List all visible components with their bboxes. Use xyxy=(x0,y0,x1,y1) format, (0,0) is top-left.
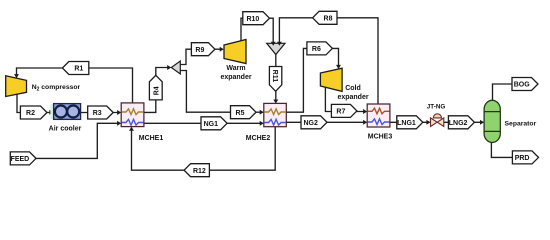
separator weld line bottom xyxy=(484,130,500,132)
wire R1 loop: MCHE1 top to N2 compressor inlet xyxy=(17,68,133,103)
svg-text:R7: R7 xyxy=(336,109,345,116)
arrow into MCHE1 hot inlet xyxy=(117,110,121,115)
air cooler fan circle left xyxy=(55,106,67,118)
arrow into air cooler (green) xyxy=(49,110,53,115)
wire MCHE1 NG outlet through NG1 to MCHE2 NG inlet xyxy=(144,122,262,124)
wire tee upper outlet through R9 to warm expander xyxy=(180,49,222,64)
cold expander xyxy=(320,68,342,91)
svg-text:LNG2: LNG2 xyxy=(449,120,468,127)
wire MCHE3 top through R8 to mixer funnel xyxy=(279,18,378,104)
svg-text:R4: R4 xyxy=(153,86,160,95)
wire separator bottom to PRD xyxy=(491,142,512,157)
svg-text:PRD: PRD xyxy=(515,155,530,162)
flag LNG2 xyxy=(448,116,474,129)
wire FEED to MCHE1 NG inlet xyxy=(30,123,120,158)
arrow into MCHE1 bottom return inlet xyxy=(129,127,134,131)
arrow into JT valve xyxy=(426,120,430,125)
arrow R10 into mixer funnel xyxy=(271,42,276,46)
wire MCHE2 NG outlet through NG2 to MCHE3 NG inlet xyxy=(286,121,365,123)
MCHE1 heat exchanger box xyxy=(121,103,144,127)
svg-text:R9: R9 xyxy=(195,47,204,54)
svg-text:R1: R1 xyxy=(74,66,83,73)
svg-text:BOG: BOG xyxy=(514,82,531,89)
svg-text:Separator: Separator xyxy=(505,120,537,127)
wire warm expander top through R10 to mixer funnel xyxy=(241,18,273,44)
svg-text:Warm: Warm xyxy=(226,65,245,72)
arrow into MCHE2 hot inlet xyxy=(260,110,264,115)
wire air cooler to R3 to MCHE1 hot inlet xyxy=(81,112,120,114)
air cooler highlight strip xyxy=(50,104,53,119)
flag LNG1 xyxy=(397,116,423,129)
svg-text:R6: R6 xyxy=(312,46,321,53)
svg-text:R10: R10 xyxy=(246,16,259,23)
flag NG2 xyxy=(301,116,327,129)
JT valve actuator dome xyxy=(433,114,441,118)
wire compressor outlet to R2 to air cooler xyxy=(17,94,50,112)
wire mixer funnel through R11 to MCHE2 top xyxy=(275,54,277,103)
flag R2 xyxy=(20,106,47,119)
flag R1 xyxy=(62,62,88,75)
flag BOG xyxy=(512,78,538,91)
MCHE2 cold zigzag xyxy=(264,119,286,125)
warm expander xyxy=(224,40,246,64)
svg-text:R11: R11 xyxy=(271,70,278,83)
MCHE3 hot zigzag xyxy=(368,108,390,114)
svg-text:FEED: FEED xyxy=(11,156,30,163)
separator weld line top xyxy=(484,111,500,113)
arrow into tee xyxy=(167,65,171,70)
flag R8 xyxy=(313,11,337,24)
arrow into MCHE1 NG inlet xyxy=(117,121,121,126)
MCHE3 heat exchanger box xyxy=(367,104,390,127)
air cooler fan circle right xyxy=(67,106,79,118)
wire tee lower outlet through R5 to MCHE2 hot inlet xyxy=(180,71,262,113)
MCHE3 cold zigzag xyxy=(368,119,390,125)
flag R5 xyxy=(231,106,257,119)
svg-text:R5: R5 xyxy=(236,110,245,117)
MCHE2 heat exchanger box xyxy=(264,103,287,126)
air cooler E1 xyxy=(54,104,81,120)
compressor K1 N2 compressor xyxy=(6,76,27,97)
separator vessel xyxy=(484,100,500,142)
wire MCHE1 hot outlet through R4 to tee xyxy=(144,68,170,113)
svg-text:NG2: NG2 xyxy=(303,120,318,127)
arrow into separator xyxy=(480,120,484,125)
svg-text:MCHE3: MCHE3 xyxy=(368,134,393,141)
arrow into warm expander xyxy=(220,47,224,52)
flag R4 xyxy=(149,75,162,100)
flag R12 xyxy=(184,164,209,177)
flag PRD xyxy=(512,151,538,164)
flag FEED xyxy=(10,152,36,165)
flag NG1 xyxy=(201,117,227,130)
svg-text:LNG1: LNG1 xyxy=(397,120,416,127)
svg-text:MCHE1: MCHE1 xyxy=(139,135,164,142)
flag R7 xyxy=(331,104,357,117)
flag R6 xyxy=(307,42,333,55)
wire separator top to BOG xyxy=(493,84,513,101)
flag R11 xyxy=(269,67,281,92)
flag R10 xyxy=(243,12,270,25)
MCHE2 hot zigzag xyxy=(264,109,286,115)
MCHE1 hot zigzag xyxy=(122,109,144,115)
svg-text:R3: R3 xyxy=(93,110,102,117)
arrow into cold expander xyxy=(336,65,341,69)
wire MCHE2 hot outlet through R6 to cold expander xyxy=(286,48,338,112)
svg-text:Air cooler: Air cooler xyxy=(49,126,82,133)
flag R3 xyxy=(88,106,114,119)
wire MCHE2 bottom through R12 to MCHE1 bottom xyxy=(132,127,276,171)
MCHE1 cold zigzag xyxy=(122,119,144,125)
arrow into MCHE3 NG inlet xyxy=(363,120,367,125)
svg-text:expander: expander xyxy=(337,94,368,101)
svg-text:R8: R8 xyxy=(324,15,333,22)
flag R9 xyxy=(191,43,215,56)
svg-text:NG1: NG1 xyxy=(204,121,219,128)
mixer funnel xyxy=(267,43,285,54)
wire cold expander outlet through R7 to MCHE3 hot inlet xyxy=(325,87,365,112)
JT valve body xyxy=(431,118,444,127)
arrow into MCHE2 top xyxy=(273,100,278,104)
svg-text:R12: R12 xyxy=(193,168,206,175)
arrow R8 into mixer funnel xyxy=(277,42,282,46)
svg-text:JT-NG: JT-NG xyxy=(427,104,446,111)
arrow into MCHE3 hot inlet xyxy=(363,109,367,114)
svg-text:MCHE2: MCHE2 xyxy=(246,135,271,142)
arrow into compressor xyxy=(14,74,19,78)
svg-text:Cold: Cold xyxy=(345,85,361,92)
wire MCHE3 outlet through LNG1 to JT valve xyxy=(390,121,430,123)
svg-text:R2: R2 xyxy=(26,110,35,117)
wire JT valve through LNG2 to separator xyxy=(444,121,483,123)
tee splitter xyxy=(171,61,180,74)
arrow into MCHE2 NG inlet xyxy=(260,121,264,126)
svg-text:expander: expander xyxy=(220,74,251,81)
